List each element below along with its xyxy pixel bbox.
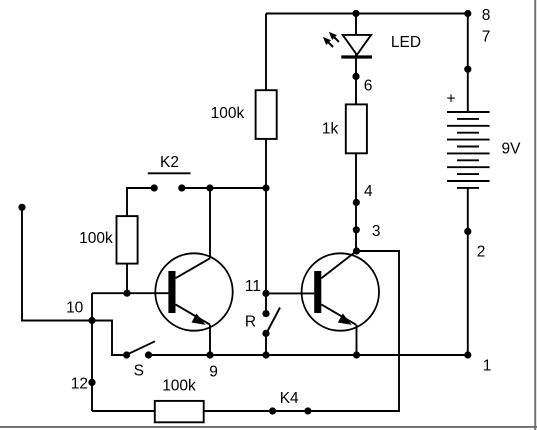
- svg-text:10: 10: [66, 299, 84, 316]
- resistor R1 100k (top middle): [256, 90, 277, 139]
- LED D1 cathode bar: [341, 55, 372, 58]
- node 11 junction: [262, 290, 269, 297]
- svg-text:4: 4: [364, 183, 373, 200]
- svg-text:1k: 1k: [322, 121, 339, 138]
- node R lower contact: [262, 330, 269, 337]
- battery BT1 plates: [447, 112, 490, 188]
- transistor Q2 base bar: [314, 271, 321, 313]
- LED emission arrow upper: [334, 37, 339, 42]
- node 7 junction: [464, 66, 471, 73]
- node junction x266 on K2 rail: [262, 184, 269, 191]
- node Q2 collector junction: [353, 247, 360, 254]
- switch S arm: [127, 341, 155, 354]
- window border bottom: [0, 426, 537, 428]
- wire K2 rail right segment to x266 vertical: [182, 187, 266, 189]
- wire K2 rail left segment with corner to R2: [127, 188, 154, 216]
- svg-text:6: 6: [364, 78, 373, 95]
- resistor R4 100k (bottom): [155, 401, 204, 422]
- wire vertical x266 from R lower contact to bottom rail: [265, 333, 267, 355]
- node 6 junction: [352, 73, 359, 80]
- svg-text:11: 11: [245, 278, 261, 295]
- node 3 junction: [353, 226, 360, 233]
- svg-text:3: 3: [372, 223, 381, 240]
- node Q2 emitter on bottom rail: [353, 351, 360, 358]
- node 8 corner junction: [464, 10, 471, 17]
- node 2 junction: [464, 228, 471, 235]
- transistor Q2 emitter arrowhead: [338, 314, 352, 325]
- node 1 junction: [464, 351, 471, 358]
- svg-text:12: 12: [71, 376, 88, 393]
- transistor Q1 emitter arrowhead: [192, 314, 206, 325]
- relay contact K2 bar: [148, 172, 191, 174]
- svg-text:7: 7: [482, 29, 491, 46]
- wire Q2 emitter vertical to bottom rail: [356, 325, 358, 355]
- node junction collector Q1 on K2 rail: [206, 184, 213, 191]
- wire bottom K4 rail left part from corner to R4: [92, 410, 155, 412]
- wire vertical x266 from top rail through R1 down to relay wire and node 11 and R upper contact: [265, 14, 267, 314]
- svg-text:100k: 100k: [162, 378, 196, 395]
- resistor R3 1k: [346, 104, 367, 153]
- window border right: [534, 0, 536, 430]
- wire R2 bottom lead to Q1 base wire: [126, 264, 128, 294]
- transistor Q2 collector diagonal: [321, 251, 356, 278]
- svg-text:9V: 9V: [502, 141, 522, 158]
- node K4 right contact: [304, 407, 311, 414]
- wire Q1 emitter vertical to bottom rail: [209, 325, 211, 355]
- node 10 junction: [88, 317, 95, 324]
- svg-text:R: R: [245, 313, 256, 330]
- wire LED branch vertical x356 from top rail through LED and R3 to node 3 junction: [355, 14, 357, 252]
- svg-text:8: 8: [482, 7, 491, 24]
- switch R arm: [267, 308, 281, 334]
- transistor Q1 emitter diagonal: [176, 304, 210, 324]
- node K2 left contact: [151, 184, 158, 191]
- node R branch on bottom rail: [262, 351, 269, 358]
- svg-text:S: S: [134, 362, 144, 379]
- node top rail LED branch: [352, 10, 359, 17]
- node junction R2 lead on base wire: [123, 290, 130, 297]
- node S right contact: [145, 351, 152, 358]
- svg-text:K2: K2: [160, 154, 179, 171]
- wire Q2 base rail from node 11 to base bar: [266, 292, 314, 294]
- node 4 junction: [353, 199, 360, 206]
- node terminal top left: [18, 204, 25, 211]
- wire bottom rail node 1/9 from S to battery bottom: [149, 354, 468, 356]
- svg-text:9: 9: [209, 363, 218, 380]
- battery BT1 vertical lead top: [467, 14, 469, 113]
- node Q1 emitter on bottom rail: [206, 351, 213, 358]
- wire feedback from Q2 collector right and down to K4 rail: [204, 251, 399, 411]
- node K4 left contact: [269, 407, 276, 414]
- node S left contact: [123, 351, 130, 358]
- wire Q1 collector vertical to K2 rail: [209, 188, 211, 258]
- transistor Q1 base bar: [168, 271, 175, 313]
- LED D1 triangle: [343, 35, 371, 55]
- svg-text:LED: LED: [391, 34, 421, 51]
- transistor Q2 emitter diagonal: [321, 304, 356, 324]
- svg-text:2: 2: [477, 243, 486, 260]
- wire top rail from node 8 corner to battery: [266, 13, 468, 15]
- transistor Q1 collector diagonal: [176, 258, 211, 278]
- transistor Q1 circle: [155, 253, 232, 330]
- wire from left terminal down and right to node 10 then jog to switch S: [22, 207, 127, 355]
- battery BT1 vertical lead bottom to node 1: [467, 188, 469, 355]
- wire Q1 base rail from x92 corner to base bar: [92, 292, 168, 294]
- LED emission arrow lower: [328, 42, 333, 47]
- node 12 junction: [88, 379, 95, 386]
- node R upper contact: [262, 310, 269, 317]
- wire vertical x92 from base rail corner down to bottom left corner: [91, 293, 93, 411]
- svg-text:+: +: [446, 90, 455, 107]
- transistor Q2 circle: [302, 253, 379, 330]
- svg-text:K4: K4: [280, 390, 299, 407]
- svg-text:100k: 100k: [211, 105, 245, 122]
- resistor R2 100k (left): [117, 216, 138, 264]
- svg-text:1: 1: [483, 357, 492, 374]
- svg-text:100k: 100k: [79, 230, 113, 247]
- node K2 right contact: [178, 184, 185, 191]
